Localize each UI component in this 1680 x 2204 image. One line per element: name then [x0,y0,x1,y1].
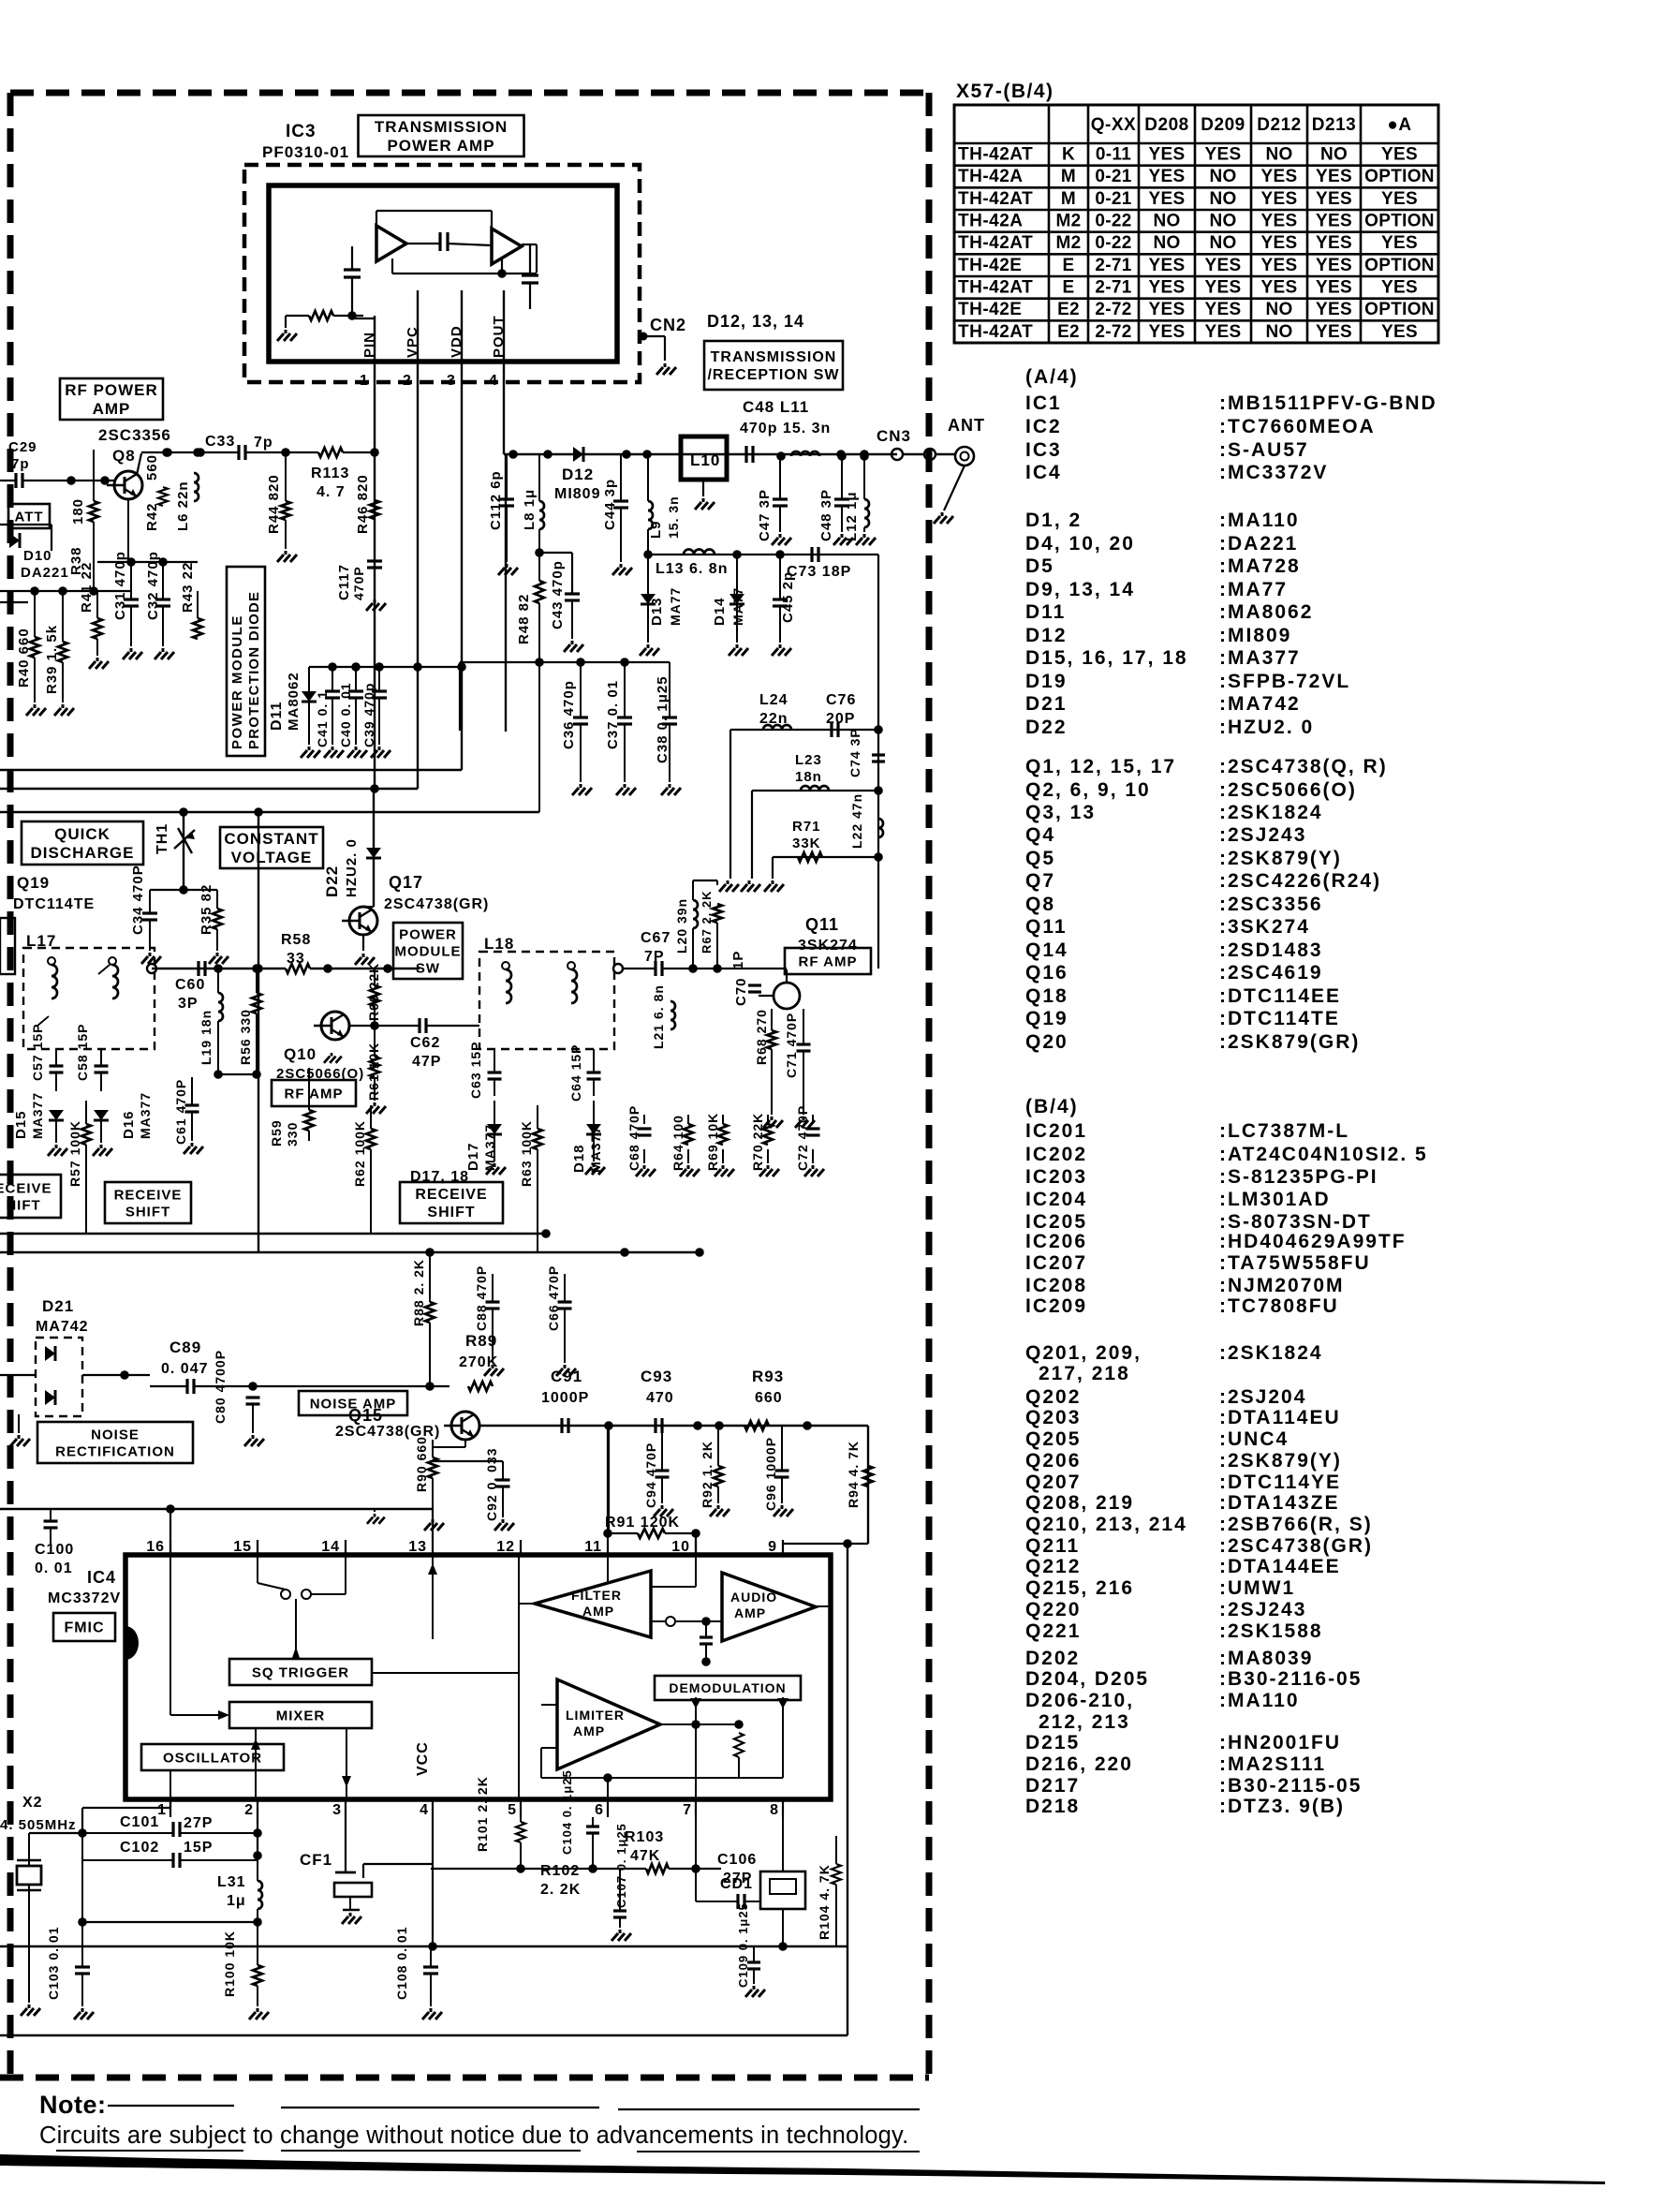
svg-text:D10: D10 [23,548,52,564]
svg-text:IC208: IC208 [1025,1275,1087,1296]
svg-text:0. 01: 0. 01 [35,1561,73,1576]
svg-text:SQ TRIGGER: SQ TRIGGER [252,1664,349,1680]
svg-text:470P: 470P [351,566,366,600]
svg-text::2SK1588: :2SK1588 [1219,1620,1323,1642]
svg-text::S-81235PG-PI: :S-81235PG-PI [1219,1166,1378,1188]
svg-text:NO: NO [1209,167,1236,186]
svg-text:C36 470p: C36 470p [561,680,577,749]
svg-text:RECTIFICATION: RECTIFICATION [55,1443,175,1459]
svg-text:D21: D21 [1025,693,1068,715]
svg-text:AMP: AMP [93,400,131,418]
svg-text:R100 10K: R100 10K [222,1930,237,1997]
svg-text::DTZ3. 9(B): :DTZ3. 9(B) [1219,1796,1345,1817]
svg-text:C76: C76 [826,692,856,708]
svg-text:C37 0. 01: C37 0. 01 [605,680,621,749]
svg-text:POWER AMP: POWER AMP [387,137,494,155]
svg-text:C92 0. 033: C92 0. 033 [484,1448,499,1522]
svg-text:RF AMP: RF AMP [799,954,858,969]
svg-text:C74 3P: C74 3P [847,728,862,777]
svg-text::MA377: :MA377 [1219,647,1301,669]
svg-text:4: 4 [420,1802,429,1818]
svg-text:R40 660: R40 660 [16,628,32,688]
svg-text::MB1511PFV-G-BND: :MB1511PFV-G-BND [1219,392,1437,414]
svg-text:Note:: Note: [39,2091,107,2119]
svg-text:YES: YES [1261,189,1298,209]
svg-text:270K: 270K [459,1354,498,1370]
svg-text:2SC3356: 2SC3356 [98,426,171,444]
svg-text:YES: YES [1316,322,1352,342]
svg-text:VPC: VPC [405,326,420,358]
svg-text:YES: YES [1381,145,1418,165]
svg-text:D15: D15 [13,1110,29,1139]
svg-text:7p: 7p [11,456,30,472]
svg-text::MI809: :MI809 [1219,625,1291,646]
svg-text:C31 470p: C31 470p [112,551,128,620]
svg-text:D12: D12 [562,466,594,483]
svg-text:L24: L24 [759,692,788,708]
svg-text:YES: YES [1316,167,1352,186]
svg-text:C33: C33 [205,434,235,450]
svg-text::2SJ204: :2SJ204 [1219,1386,1306,1408]
svg-text::MA8039: :MA8039 [1219,1648,1313,1669]
svg-text::2SC4226(R24): :2SC4226(R24) [1219,870,1381,892]
svg-text:YES: YES [1261,233,1298,253]
svg-text:C68 470P: C68 470P [626,1105,641,1171]
svg-text:7: 7 [683,1802,692,1818]
svg-text:C29: C29 [8,439,37,455]
svg-text:LIMITER: LIMITER [566,1708,625,1723]
svg-text:C60: C60 [175,977,205,993]
svg-text:MA8062: MA8062 [286,672,302,731]
svg-text:Q19: Q19 [1025,1008,1068,1029]
svg-text::2SJ243: :2SJ243 [1219,824,1306,846]
svg-text:NO: NO [1265,145,1292,165]
svg-text:D202: D202 [1025,1648,1080,1669]
svg-text::UNC4: :UNC4 [1219,1428,1289,1450]
svg-text:TRANSMISSION: TRANSMISSION [375,118,508,136]
svg-text:R68 270: R68 270 [754,1009,769,1065]
svg-text::MA77: :MA77 [1219,579,1288,600]
svg-text:YES: YES [1205,145,1242,165]
svg-text:MC3372V: MC3372V [48,1590,121,1606]
svg-text:YES: YES [1261,167,1298,186]
svg-text:NO: NO [1209,233,1236,253]
svg-text:7p: 7p [254,435,273,451]
svg-text:12: 12 [496,1539,515,1555]
svg-text:C72 470P: C72 470P [795,1105,810,1171]
svg-text:D204, D205: D204, D205 [1025,1668,1149,1690]
svg-text:C88 470P: C88 470P [474,1265,489,1331]
svg-text:●A: ●A [1387,115,1411,135]
svg-text:OPTION: OPTION [1364,167,1435,186]
svg-text:TH-42AT: TH-42AT [958,189,1033,209]
svg-text:FMIC: FMIC [64,1620,104,1636]
svg-text::MA110: :MA110 [1219,510,1300,531]
svg-text:2: 2 [403,373,412,389]
svg-text:D217: D217 [1025,1775,1080,1797]
svg-text::MA8062: :MA8062 [1219,601,1313,623]
svg-text:R44 820: R44 820 [266,474,282,534]
svg-text:YES: YES [1316,278,1352,298]
svg-text:8: 8 [770,1802,779,1818]
svg-text:Circuits are subject to change: Circuits are subject to change without n… [39,2123,908,2149]
svg-text:Q2, 6, 9, 10: Q2, 6, 9, 10 [1025,779,1151,801]
svg-text:IC1: IC1 [1025,392,1062,414]
svg-text::AT24C04N10SI2. 5: :AT24C04N10SI2. 5 [1219,1144,1428,1165]
svg-text:C80 4700P: C80 4700P [213,1350,228,1424]
svg-text:C109 0. 1μ25: C109 0. 1μ25 [736,1902,750,1988]
svg-text:0. 047: 0. 047 [161,1361,208,1377]
svg-text:212, 213: 212, 213 [1039,1711,1130,1733]
svg-text:SHIFT: SHIFT [125,1204,170,1220]
svg-text::LM301AD: :LM301AD [1219,1189,1331,1210]
svg-text:L21 6. 8n: L21 6. 8n [651,984,666,1049]
svg-text:D215: D215 [1025,1732,1080,1753]
svg-text:FILTER: FILTER [571,1588,622,1603]
svg-text:E2: E2 [1057,300,1080,319]
svg-text:IC207: IC207 [1025,1252,1087,1274]
svg-text:K: K [1062,145,1075,165]
svg-text::B30-2115-05: :B30-2115-05 [1219,1775,1362,1797]
svg-text:D14: D14 [712,597,728,626]
svg-text:L19 18n: L19 18n [199,1010,214,1065]
svg-text:M2: M2 [1056,233,1082,253]
svg-text:C117: C117 [336,564,352,600]
svg-text:D5: D5 [1025,555,1054,577]
svg-text::HZU2. 0: :HZU2. 0 [1219,717,1314,738]
svg-text:YES: YES [1316,233,1352,253]
svg-text:217, 218: 217, 218 [1039,1363,1130,1384]
svg-text::2SK879(Y): :2SK879(Y) [1219,848,1342,869]
svg-text:YES: YES [1149,167,1186,186]
svg-text:CD1: CD1 [720,1876,753,1892]
svg-text:6: 6 [595,1802,604,1818]
svg-text::2SC5066(O): :2SC5066(O) [1219,779,1357,801]
svg-text:D1, 2: D1, 2 [1025,510,1082,531]
svg-text:PF0310-01: PF0310-01 [262,143,349,161]
svg-text:1000P: 1000P [541,1390,589,1406]
svg-text:R43 22: R43 22 [180,562,196,613]
svg-text:MI809: MI809 [554,486,600,502]
svg-text:L20 39n: L20 39n [674,898,689,954]
svg-text:CN3: CN3 [877,427,911,445]
svg-text:DISCHARGE: DISCHARGE [30,844,134,862]
svg-text:R91 120K: R91 120K [605,1515,680,1531]
svg-text:X2: X2 [22,1795,43,1811]
svg-text:MODULE: MODULE [395,943,462,959]
svg-text:Q4: Q4 [1025,824,1055,846]
svg-text:YES: YES [1381,233,1418,253]
svg-text:C63 15P: C63 15P [468,1042,483,1099]
svg-text:TH-42E: TH-42E [958,300,1022,319]
svg-text:YES: YES [1381,189,1418,209]
svg-text:TH-42A: TH-42A [958,212,1024,231]
svg-text:D16: D16 [121,1110,137,1139]
svg-text:YES: YES [1261,278,1298,298]
svg-text:R103: R103 [625,1829,664,1845]
svg-text:MIXER: MIXER [276,1708,326,1723]
svg-text:R41 22: R41 22 [79,562,95,613]
svg-text:4: 4 [489,373,498,389]
svg-text:D12, 13, 14: D12, 13, 14 [707,312,804,331]
svg-text::DTA144EE: :DTA144EE [1219,1556,1341,1577]
svg-text:X57-(B/4): X57-(B/4) [956,81,1054,102]
svg-text:NO: NO [1153,212,1180,231]
svg-text:IC202: IC202 [1025,1144,1087,1165]
svg-text:R58: R58 [281,932,311,948]
svg-text:YES: YES [1149,256,1186,275]
svg-text:YES: YES [1205,322,1242,342]
svg-text:D11: D11 [1025,601,1066,623]
svg-text:YES: YES [1316,256,1352,275]
svg-text::DTA143ZE: :DTA143ZE [1219,1492,1339,1514]
svg-text:Q1, 12, 15, 17: Q1, 12, 15, 17 [1025,756,1176,777]
svg-text:M2: M2 [1056,212,1082,231]
svg-text:(B/4): (B/4) [1025,1096,1079,1117]
svg-text:PROTECTION DIODE: PROTECTION DIODE [246,591,262,749]
svg-text:3: 3 [447,373,456,389]
svg-text:47P: 47P [412,1054,441,1070]
svg-text::DTC114YE: :DTC114YE [1219,1472,1341,1493]
svg-text:2-71: 2-71 [1095,256,1131,275]
svg-text:Q215, 216: Q215, 216 [1025,1577,1134,1599]
svg-text:Q8: Q8 [112,447,136,465]
svg-text:IC206: IC206 [1025,1231,1087,1252]
svg-text:2-72: 2-72 [1095,300,1131,319]
svg-text:15P: 15P [184,1840,213,1856]
svg-text::TC7660MEOA: :TC7660MEOA [1219,416,1376,437]
svg-text:D208: D208 [1144,115,1188,135]
svg-text:TH-42AT: TH-42AT [958,233,1033,253]
svg-text:1: 1 [360,373,369,389]
svg-text:Q15: Q15 [348,1406,383,1425]
svg-text:R101 2. 2K: R101 2. 2K [475,1776,490,1852]
svg-text:YES: YES [1149,278,1186,298]
svg-text::S-8073SN-DT: :S-8073SN-DT [1219,1211,1372,1233]
svg-text:C34 470P: C34 470P [130,865,146,935]
svg-text:Q16: Q16 [1025,962,1068,984]
svg-text:R94 4. 7K: R94 4. 7K [846,1441,861,1508]
svg-text:D209: D209 [1201,115,1245,135]
svg-text:DEMODULATION: DEMODULATION [669,1680,786,1695]
svg-text:Q14: Q14 [1025,939,1068,961]
svg-text:NOISE: NOISE [91,1427,140,1442]
svg-text:D22: D22 [1025,717,1068,738]
svg-text:YES: YES [1205,278,1242,298]
svg-text:C32 470p: C32 470p [145,551,161,620]
svg-text:D218: D218 [1025,1796,1080,1817]
svg-text:VDD: VDD [449,325,464,358]
svg-text:MA377: MA377 [30,1092,45,1139]
svg-text:15. 3n: 15. 3n [666,496,681,539]
svg-text:AMP: AMP [573,1723,605,1738]
svg-text:RECEIVE: RECEIVE [415,1187,487,1203]
svg-text:Q207: Q207 [1025,1472,1081,1493]
svg-text:C107 0. 1μ25: C107 0. 1μ25 [614,1823,628,1908]
svg-text:POWER MODULE: POWER MODULE [229,614,245,749]
svg-text:YES: YES [1381,278,1418,298]
svg-text::SFPB-72VL: :SFPB-72VL [1219,671,1350,692]
svg-text:C48 3P: C48 3P [818,489,834,541]
svg-text:C43 470p: C43 470p [550,560,566,629]
svg-text:C102: C102 [120,1840,159,1856]
svg-text:Q211: Q211 [1025,1535,1080,1557]
svg-text:C93: C93 [641,1368,672,1385]
svg-text::2SJ243: :2SJ243 [1219,1599,1306,1620]
svg-text:AUDIO: AUDIO [730,1590,777,1605]
svg-text:M: M [1061,189,1076,209]
svg-text:YES: YES [1149,300,1186,319]
svg-text:TH-42E: TH-42E [958,256,1022,275]
svg-text:0-21: 0-21 [1095,189,1131,209]
svg-text:IC205: IC205 [1025,1211,1087,1233]
svg-text:DA221: DA221 [21,565,69,581]
svg-text::DA221: :DA221 [1219,533,1298,555]
svg-text:Q206: Q206 [1025,1450,1081,1472]
svg-text::2SC4738(GR): :2SC4738(GR) [1219,1535,1373,1557]
svg-text:R104 4. 7K: R104 4. 7K [817,1864,832,1940]
svg-text:C48 L11: C48 L11 [743,398,809,416]
svg-text:13: 13 [408,1539,427,1555]
svg-text:2-72: 2-72 [1095,322,1131,342]
svg-text::MA2S111: :MA2S111 [1219,1753,1326,1775]
svg-text:D212: D212 [1257,115,1301,135]
svg-text:4. 505MHz: 4. 505MHz [0,1817,77,1833]
svg-text:TH-42AT: TH-42AT [958,278,1033,298]
svg-text:VCC: VCC [415,1741,431,1776]
svg-text:2SC4738(GR): 2SC4738(GR) [384,896,489,912]
svg-text:C44 3p: C44 3p [602,479,618,530]
svg-text:QUICK: QUICK [54,825,111,843]
svg-text::2SK879(GR): :2SK879(GR) [1219,1031,1360,1053]
svg-text:HZU2. 0: HZU2. 0 [344,838,360,897]
svg-text:YES: YES [1381,322,1418,342]
svg-text::2SK879(Y): :2SK879(Y) [1219,1450,1342,1472]
svg-text:TRANSMISSION: TRANSMISSION [711,349,837,365]
svg-text:L23: L23 [795,752,822,768]
svg-text::DTC114EE: :DTC114EE [1219,985,1341,1007]
svg-text:TH-42AT: TH-42AT [958,322,1033,342]
svg-text:D11: D11 [269,702,285,731]
svg-text:16: 16 [146,1539,165,1555]
svg-text:R56 330: R56 330 [238,1009,253,1065]
svg-text::2SC4619: :2SC4619 [1219,962,1323,984]
svg-text:Q205: Q205 [1025,1428,1081,1450]
svg-text::UMW1: :UMW1 [1219,1577,1295,1599]
svg-text:470p 15. 3n: 470p 15. 3n [740,421,831,436]
svg-text::DTA114EU: :DTA114EU [1219,1407,1341,1428]
svg-text:C100: C100 [35,1542,74,1558]
svg-text:OSCILLATOR: OSCILLATOR [163,1750,262,1766]
svg-text:OPTION: OPTION [1364,212,1435,231]
svg-text:E: E [1063,256,1075,275]
svg-text:5: 5 [508,1802,517,1818]
svg-text:TH-42A: TH-42A [958,167,1024,186]
svg-text:4. 7: 4. 7 [317,484,346,500]
svg-text::TC7808FU: :TC7808FU [1219,1295,1339,1317]
svg-text:POUT: POUT [491,315,507,358]
svg-text:CF1: CF1 [300,1851,332,1869]
svg-text:L10: L10 [690,451,720,469]
svg-text:YES: YES [1316,300,1352,319]
svg-text:Q3, 13: Q3, 13 [1025,802,1096,823]
svg-text:IC4: IC4 [1025,462,1062,483]
svg-text:TH-42AT: TH-42AT [958,145,1033,165]
svg-text:C70: C70 [733,977,749,1006]
svg-text:Q18: Q18 [1025,985,1068,1007]
svg-text:IC204: IC204 [1025,1189,1087,1210]
svg-text::HN2001FU: :HN2001FU [1219,1732,1341,1753]
svg-text:3SK274: 3SK274 [798,938,858,954]
svg-text:R102: R102 [540,1863,580,1879]
svg-text:HIFT: HIFT [6,1197,40,1213]
svg-text:Q-XX: Q-XX [1091,115,1136,135]
svg-text:YES: YES [1205,256,1242,275]
svg-text:AMP: AMP [582,1604,614,1619]
svg-text:TH1: TH1 [155,823,170,854]
svg-text:D15, 16, 17, 18: D15, 16, 17, 18 [1025,647,1188,669]
svg-text:180: 180 [70,498,86,525]
svg-text:YES: YES [1316,189,1352,209]
svg-text:27P: 27P [184,1815,213,1831]
svg-text:C101: C101 [120,1814,159,1830]
svg-text:R71: R71 [792,819,821,835]
svg-text:C73 18P: C73 18P [787,564,851,580]
svg-text:YES: YES [1316,212,1352,231]
svg-text:1μ: 1μ [227,1893,246,1909]
svg-text:470: 470 [646,1390,674,1406]
svg-text:3: 3 [332,1802,342,1818]
svg-text::MA728: :MA728 [1219,555,1301,577]
svg-text:C67: C67 [641,930,671,946]
svg-text::LC7387M-L: :LC7387M-L [1219,1120,1349,1142]
svg-text:(A/4): (A/4) [1025,366,1079,388]
svg-text:C64 15P: C64 15P [568,1044,583,1102]
svg-text:Q212: Q212 [1025,1556,1081,1577]
svg-text:YES: YES [1149,145,1186,165]
svg-text::HD404629A99TF: :HD404629A99TF [1219,1231,1407,1252]
svg-text:R89: R89 [465,1332,497,1350]
svg-text:IC201: IC201 [1025,1120,1087,1142]
svg-text:D213: D213 [1312,115,1356,135]
svg-text::2SK1824: :2SK1824 [1219,802,1323,823]
svg-text:AMP: AMP [734,1605,766,1620]
svg-text:OPTION: OPTION [1364,300,1435,319]
svg-text:L6 22n: L6 22n [175,481,191,531]
svg-text:R57 100K: R57 100K [67,1120,82,1187]
svg-text:D206-210,: D206-210, [1025,1690,1134,1711]
svg-text:IC3: IC3 [286,122,317,141]
svg-text:560: 560 [144,454,160,481]
svg-text::S-AU57: :S-AU57 [1219,439,1309,461]
svg-text:D13: D13 [649,597,665,626]
svg-text:R90 660: R90 660 [414,1436,429,1492]
svg-text:RF POWER: RF POWER [65,381,158,399]
svg-text:C57 15P: C57 15P [30,1024,45,1081]
svg-text:C96 1000P: C96 1000P [763,1437,778,1511]
svg-text:NO: NO [1209,212,1236,231]
svg-text:9: 9 [768,1539,777,1555]
svg-text:ANT: ANT [948,416,985,435]
svg-text:L31: L31 [217,1874,246,1890]
svg-text:D18: D18 [571,1144,587,1173]
svg-text:/RECEPTION SW: /RECEPTION SW [707,367,839,383]
svg-text:M: M [1061,167,1076,186]
svg-text:C62: C62 [410,1035,440,1051]
svg-text:MA742: MA742 [36,1319,89,1335]
svg-text:Q11: Q11 [805,915,839,934]
svg-text::MA110: :MA110 [1219,1690,1300,1711]
